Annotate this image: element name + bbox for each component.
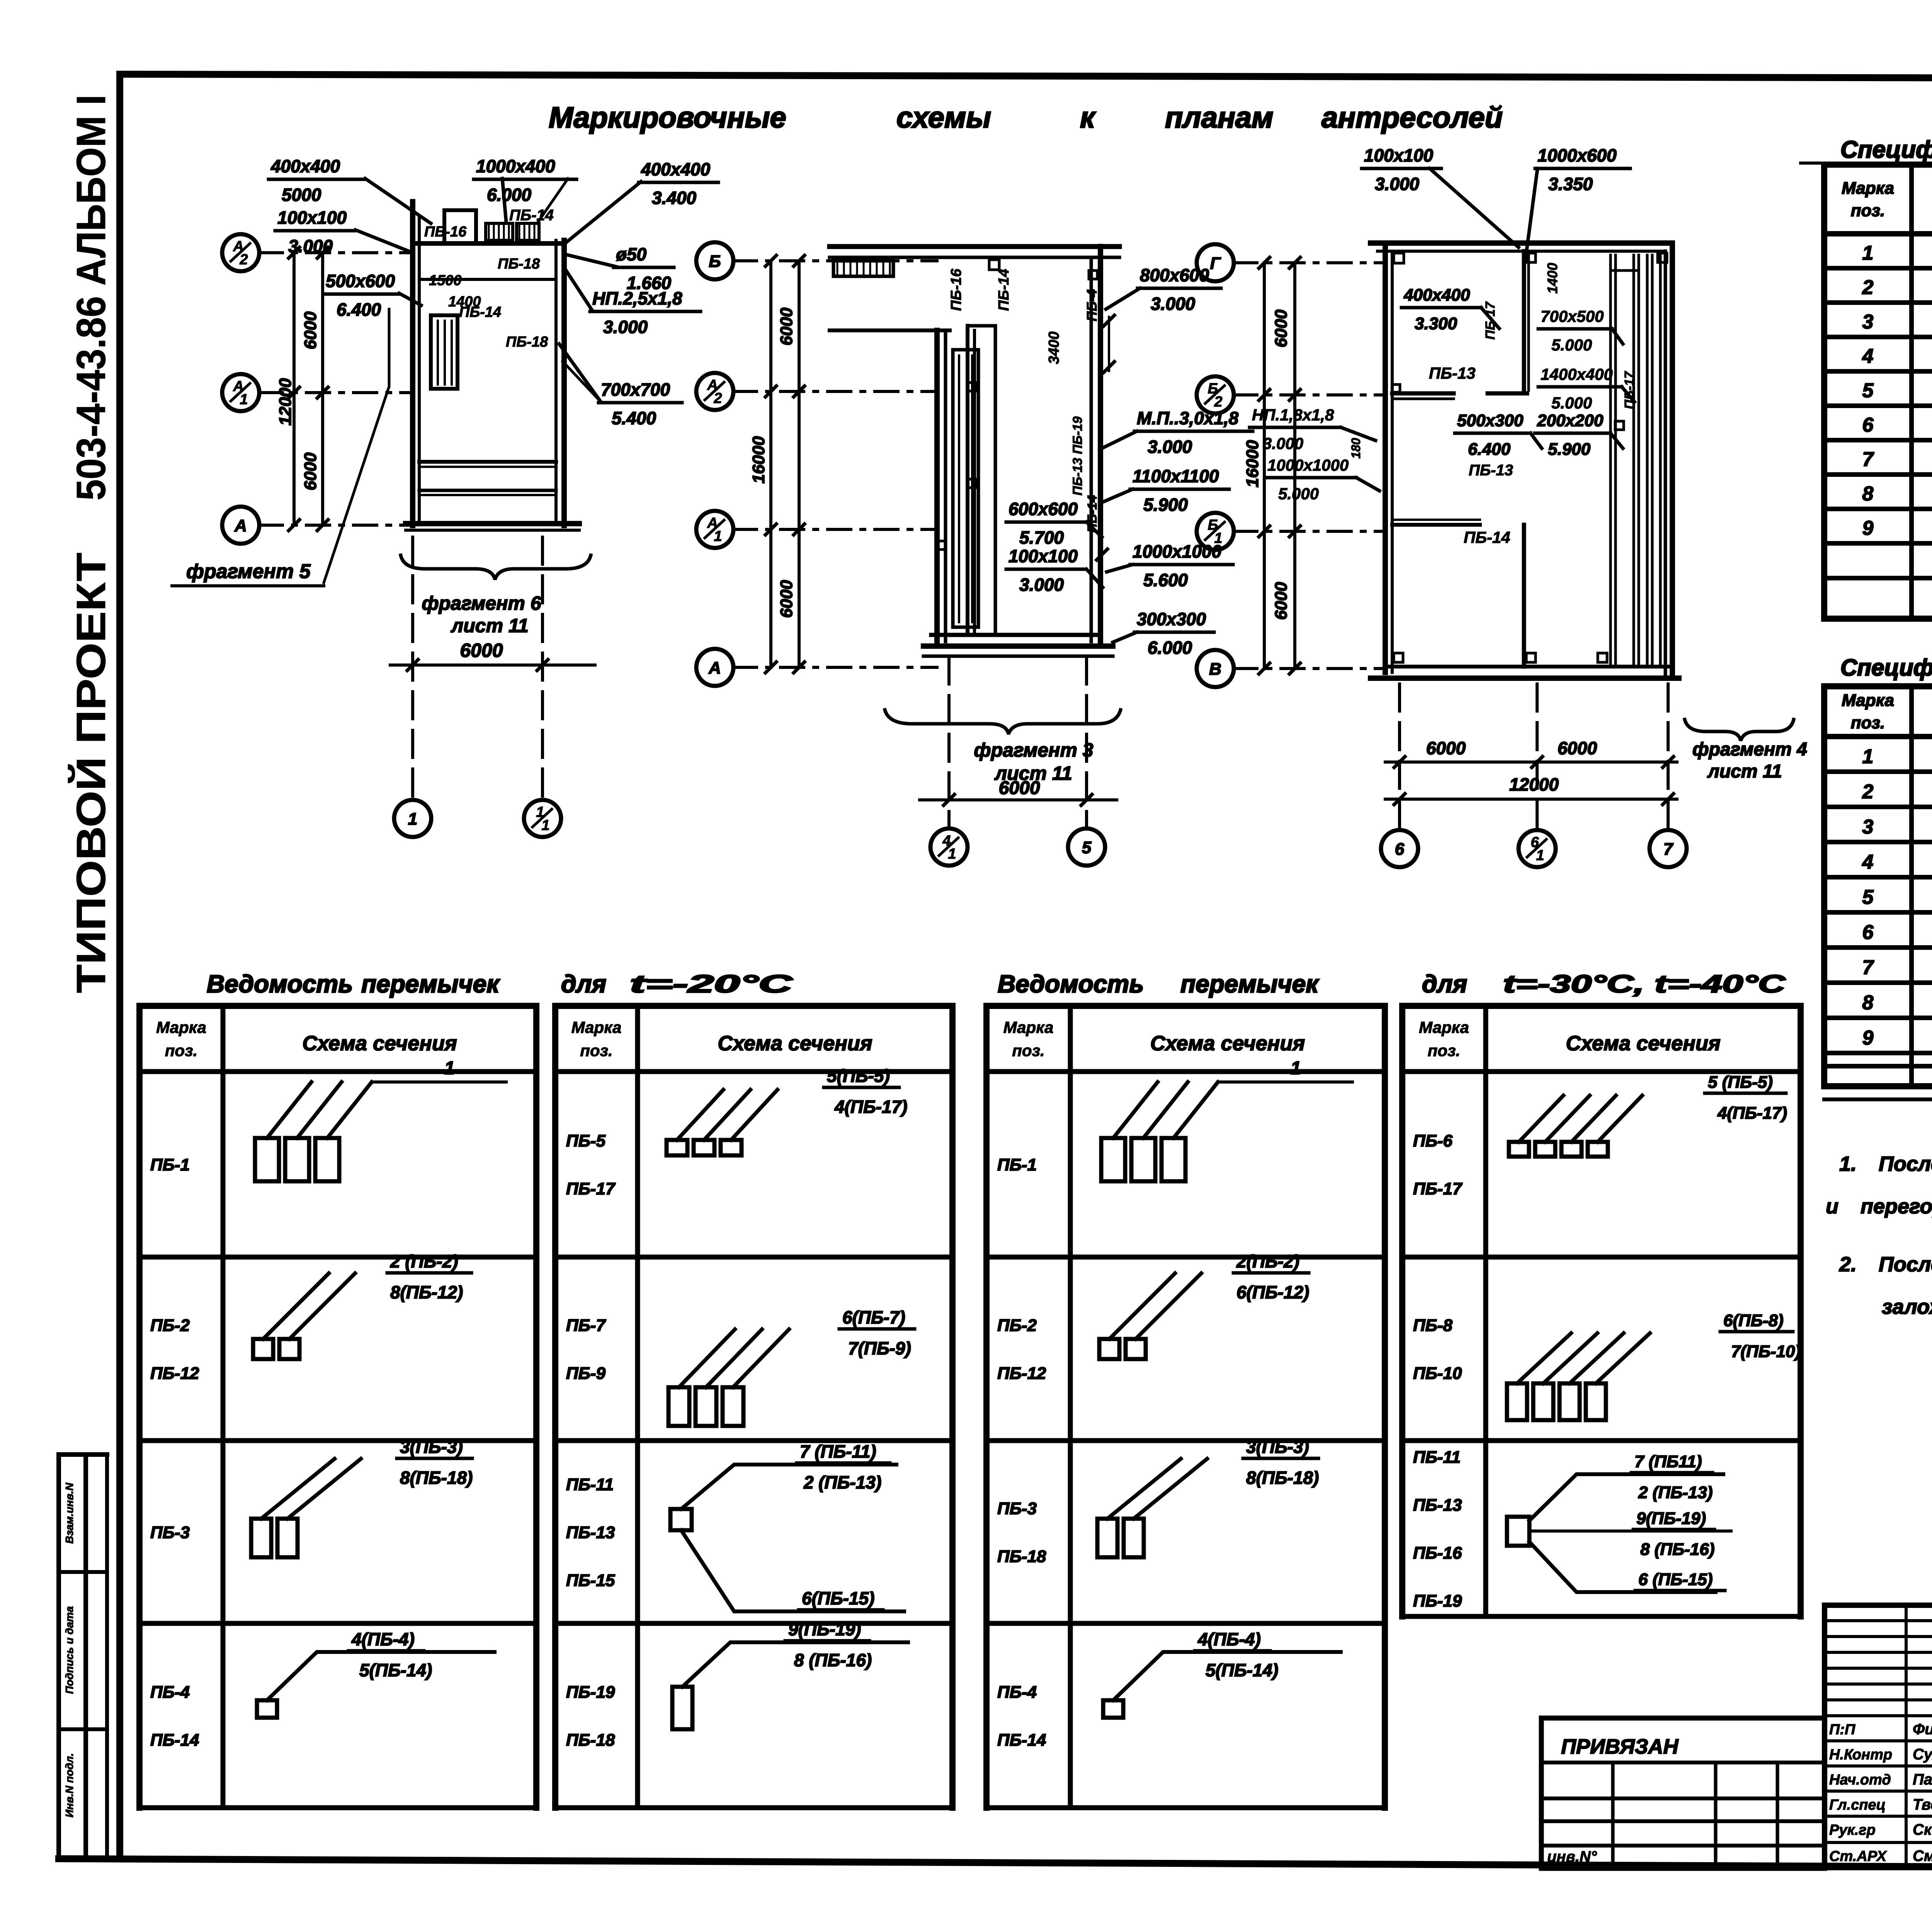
svg-text:Маркировочные: Маркировочные xyxy=(549,101,786,134)
svg-text:Схема сечения: Схема сечения xyxy=(1150,1032,1305,1055)
svg-text:5: 5 xyxy=(1862,379,1874,402)
svg-text:6.000: 6.000 xyxy=(487,185,532,205)
svg-text:ПБ-13: ПБ-13 xyxy=(1469,462,1513,479)
svg-text:1: 1 xyxy=(1862,745,1874,768)
svg-text:ПБ-18: ПБ-18 xyxy=(566,1731,615,1750)
svg-text:100х100: 100х100 xyxy=(1364,145,1433,165)
svg-text:ПБ-15: ПБ-15 xyxy=(566,1571,615,1590)
svg-text:8 (ПБ-16): 8 (ПБ-16) xyxy=(794,1650,872,1670)
svg-text:ПБ-13 ПБ-19: ПБ-13 ПБ-19 xyxy=(1070,417,1085,496)
svg-text:ПБ-14: ПБ-14 xyxy=(509,207,554,224)
svg-text:4: 4 xyxy=(1862,851,1874,873)
svg-text:Марка: Марка xyxy=(156,1018,206,1036)
svg-text:3.000: 3.000 xyxy=(1148,437,1192,457)
svg-text:5.600: 5.600 xyxy=(1143,570,1188,590)
svg-text:заложить кирпичом на раств: заложить кирпичом на растворе марки 10. xyxy=(1882,1295,1932,1318)
svg-text:ПРИВЯЗАН: ПРИВЯЗАН xyxy=(1561,1735,1679,1758)
svg-text:Марка: Марка xyxy=(1842,179,1894,198)
svg-text:ø50: ø50 xyxy=(616,244,647,264)
svg-text:6 (ПБ-15): 6 (ПБ-15) xyxy=(1638,1570,1713,1589)
svg-text:схемы: схемы xyxy=(896,101,991,134)
svg-text:ПБ-14: ПБ-14 xyxy=(1464,528,1510,546)
svg-text:инв.N°: инв.N° xyxy=(1547,1848,1597,1865)
svg-text:Подпись и дата: Подпись и дата xyxy=(63,1606,75,1694)
svg-text:ПБ-10: ПБ-10 xyxy=(1413,1364,1462,1383)
svg-text:Взам.инв.N: Взам.инв.N xyxy=(63,1482,75,1543)
svg-text:для: для xyxy=(1422,970,1467,998)
svg-text:6000: 6000 xyxy=(1558,738,1597,758)
svg-text:9(ПБ-19): 9(ПБ-19) xyxy=(788,1619,861,1639)
svg-text:ПБ-12: ПБ-12 xyxy=(997,1364,1046,1383)
svg-text:2. После установки оборуд: 2. После установки оборудования монтажны… xyxy=(1839,1253,1932,1276)
svg-text:400х400: 400х400 xyxy=(1403,286,1470,305)
svg-text:ПБ-18: ПБ-18 xyxy=(997,1547,1046,1566)
svg-text:ПБ-2: ПБ-2 xyxy=(150,1316,190,1335)
svg-text:поз.: поз. xyxy=(1851,201,1885,220)
svg-text:ПБ-17: ПБ-17 xyxy=(1413,1179,1463,1198)
svg-text:300х300: 300х300 xyxy=(1137,609,1206,629)
svg-text:5.000: 5.000 xyxy=(1551,336,1592,354)
svg-text:5.700: 5.700 xyxy=(1019,527,1064,548)
svg-text:1000х600: 1000х600 xyxy=(1537,145,1617,165)
svg-text:1: 1 xyxy=(541,817,549,834)
svg-text:1: 1 xyxy=(240,391,248,408)
svg-text:ПБ-9: ПБ-9 xyxy=(566,1364,605,1383)
svg-text:4(ПБ-17): 4(ПБ-17) xyxy=(1717,1104,1787,1123)
svg-text:1: 1 xyxy=(948,846,956,862)
svg-text:А: А xyxy=(708,658,721,677)
svg-text:Инв.N подл.: Инв.N подл. xyxy=(63,1753,75,1817)
svg-text:7 (ПБ-11): 7 (ПБ-11) xyxy=(800,1441,876,1461)
svg-text:1400х400: 1400х400 xyxy=(1541,365,1613,383)
svg-text:100х100: 100х100 xyxy=(1009,546,1078,566)
svg-text:6: 6 xyxy=(1862,414,1874,436)
svg-text:12000: 12000 xyxy=(1509,774,1559,794)
svg-text:3.000: 3.000 xyxy=(288,236,333,256)
svg-text:антресолей: антресолей xyxy=(1321,101,1503,134)
svg-text:2(ПБ-2): 2(ПБ-2) xyxy=(1236,1251,1299,1271)
svg-text:5.900: 5.900 xyxy=(1143,495,1188,515)
svg-text:5(ПБ-5): 5(ПБ-5) xyxy=(827,1066,890,1086)
svg-text:ПБ-14: ПБ-14 xyxy=(996,269,1012,311)
svg-text:1: 1 xyxy=(1291,1058,1301,1079)
svg-text:ПБ-16: ПБ-16 xyxy=(1413,1544,1462,1563)
svg-text:6000: 6000 xyxy=(1272,582,1291,620)
svg-text:2: 2 xyxy=(239,252,248,268)
svg-text:ПБ-1: ПБ-1 xyxy=(150,1155,190,1174)
svg-text:НП.2,5х1,8: НП.2,5х1,8 xyxy=(592,288,682,308)
svg-text:600х600: 600х600 xyxy=(1009,499,1078,519)
svg-text:ПБ-14: ПБ-14 xyxy=(997,1731,1046,1750)
svg-text:Сухановская: Сухановская xyxy=(1913,1746,1932,1763)
svg-text:ПБ-16: ПБ-16 xyxy=(424,224,467,240)
svg-text:ПБ-8: ПБ-8 xyxy=(1413,1316,1452,1335)
svg-text:3.000: 3.000 xyxy=(1019,575,1064,595)
svg-text:5: 5 xyxy=(1862,886,1874,908)
svg-text:ПБ-7: ПБ-7 xyxy=(566,1316,606,1335)
svg-text:Б: Б xyxy=(709,252,721,271)
svg-text:7(ПБ-9): 7(ПБ-9) xyxy=(848,1338,911,1358)
svg-text:16000: 16000 xyxy=(749,436,768,483)
svg-text:Смирнов: Смирнов xyxy=(1913,1848,1932,1865)
svg-text:поз.: поз. xyxy=(1012,1041,1044,1060)
svg-text:ПБ-5: ПБ-5 xyxy=(566,1131,605,1150)
svg-text:4(ПБ-4): 4(ПБ-4) xyxy=(1197,1629,1261,1649)
svg-text:3(ПБ-3): 3(ПБ-3) xyxy=(400,1437,463,1457)
svg-text:Схема сечения: Схема сечения xyxy=(718,1032,872,1055)
svg-text:400х400: 400х400 xyxy=(270,156,340,176)
svg-text:1400: 1400 xyxy=(448,294,481,310)
svg-text:к: к xyxy=(1080,101,1096,134)
svg-text:и перегородках заделать бет: и перегородках заделать бетоном класса В… xyxy=(1826,1195,1932,1218)
svg-text:5.900: 5.900 xyxy=(1548,440,1591,459)
svg-text:ПБ-14: ПБ-14 xyxy=(150,1731,199,1750)
svg-text:планам: планам xyxy=(1165,101,1273,134)
svg-text:ПБ-13: ПБ-13 xyxy=(1413,1496,1462,1515)
svg-text:3.000: 3.000 xyxy=(1151,294,1196,314)
svg-text:400х400: 400х400 xyxy=(641,159,710,179)
svg-text:5(ПБ-14): 5(ПБ-14) xyxy=(1206,1660,1278,1680)
svg-text:4: 4 xyxy=(1862,345,1874,367)
svg-text:200х200: 200х200 xyxy=(1537,411,1604,430)
svg-text:8: 8 xyxy=(1862,992,1874,1014)
svg-text:12000: 12000 xyxy=(276,378,295,425)
svg-text:1400: 1400 xyxy=(1544,263,1560,294)
svg-text:ПБ-4: ПБ-4 xyxy=(150,1683,190,1702)
svg-text:5000: 5000 xyxy=(282,185,321,205)
svg-text:3: 3 xyxy=(1862,816,1874,838)
svg-text:ПБ-12: ПБ-12 xyxy=(150,1364,199,1383)
svg-text:2 (ПБ-13): 2 (ПБ-13) xyxy=(1638,1483,1713,1502)
svg-text:8 (ПБ-16): 8 (ПБ-16) xyxy=(1640,1540,1714,1559)
svg-text:1: 1 xyxy=(1214,530,1222,546)
svg-text:Ст.АРХ: Ст.АРХ xyxy=(1829,1848,1888,1865)
svg-text:Спецификация: Спецификация xyxy=(1840,655,1932,680)
svg-text:3.300: 3.300 xyxy=(1415,314,1458,333)
svg-text:1: 1 xyxy=(1862,242,1874,264)
svg-text:503-4-43.86 АЛЬБОМ I: 503-4-43.86 АЛЬБОМ I xyxy=(68,95,114,500)
svg-text:перемычек: перемычек xyxy=(361,970,500,998)
svg-text:лист 11: лист 11 xyxy=(1707,761,1782,782)
svg-text:4(ПБ-17): 4(ПБ-17) xyxy=(834,1097,907,1117)
svg-text:7(ПБ-10): 7(ПБ-10) xyxy=(1731,1342,1801,1361)
svg-text:ПБ-3: ПБ-3 xyxy=(997,1499,1037,1518)
svg-text:Н.Контр: Н.Контр xyxy=(1829,1747,1892,1763)
svg-text:Спецификация: Спецификация xyxy=(1840,136,1932,163)
svg-text:8(ПБ-12): 8(ПБ-12) xyxy=(390,1282,463,1302)
svg-text:1: 1 xyxy=(408,810,417,829)
svg-text:2 (ПБ-2): 2 (ПБ-2) xyxy=(390,1251,458,1271)
svg-text:1: 1 xyxy=(714,528,722,544)
svg-text:6.400: 6.400 xyxy=(337,299,381,320)
svg-text:7: 7 xyxy=(1862,956,1874,979)
svg-text:ПБ-1: ПБ-1 xyxy=(997,1155,1037,1174)
svg-text:500х300: 500х300 xyxy=(1457,411,1524,430)
svg-text:1100х1100: 1100х1100 xyxy=(1133,466,1219,486)
svg-text:Нач.отд: Нач.отд xyxy=(1829,1772,1891,1788)
svg-text:2: 2 xyxy=(713,390,722,407)
svg-text:поз.: поз. xyxy=(1851,713,1885,732)
svg-text:1500: 1500 xyxy=(429,272,462,289)
svg-text:6(ПБ-7): 6(ПБ-7) xyxy=(842,1307,905,1327)
svg-text:5(ПБ-14): 5(ПБ-14) xyxy=(359,1660,432,1680)
svg-text:3.400: 3.400 xyxy=(652,188,697,208)
svg-text:поз.: поз. xyxy=(165,1041,197,1060)
svg-text:700х500: 700х500 xyxy=(1541,307,1604,325)
svg-text:500х600: 500х600 xyxy=(326,271,395,291)
svg-text:1: 1 xyxy=(444,1058,455,1079)
svg-text:Пашинский: Пашинский xyxy=(1913,1771,1932,1788)
svg-text:фрагмент 4: фрагмент 4 xyxy=(1692,739,1807,760)
svg-text:700х700: 700х700 xyxy=(601,379,670,400)
svg-text:лист 11: лист 11 xyxy=(451,615,529,636)
svg-text:ПБ-2: ПБ-2 xyxy=(997,1316,1037,1335)
svg-text:6000: 6000 xyxy=(1426,738,1466,758)
svg-text:9(ПБ-19): 9(ПБ-19) xyxy=(1636,1509,1706,1528)
svg-text:1: 1 xyxy=(1536,847,1544,864)
svg-text:8: 8 xyxy=(1862,483,1874,505)
svg-text:ПБ-13: ПБ-13 xyxy=(1429,364,1476,382)
svg-text:3.000: 3.000 xyxy=(603,317,648,337)
svg-text:2: 2 xyxy=(1862,276,1874,299)
svg-text:5: 5 xyxy=(1082,838,1092,857)
svg-text:6: 6 xyxy=(1862,921,1874,944)
svg-text:6.000: 6.000 xyxy=(1148,638,1192,658)
svg-text:ПБ-17: ПБ-17 xyxy=(1483,301,1498,340)
svg-text:6000: 6000 xyxy=(301,453,320,490)
svg-text:Марка: Марка xyxy=(1003,1018,1054,1036)
svg-text:ПБ-17: ПБ-17 xyxy=(1622,371,1637,409)
svg-text:ПБ-16: ПБ-16 xyxy=(948,269,964,311)
svg-text:Марка: Марка xyxy=(571,1018,622,1036)
svg-text:3.000: 3.000 xyxy=(1375,174,1420,194)
svg-text:3400: 3400 xyxy=(1046,332,1062,364)
svg-text:7: 7 xyxy=(1862,448,1874,471)
svg-text:3.000: 3.000 xyxy=(1263,434,1303,453)
svg-text:2: 2 xyxy=(1214,394,1222,410)
svg-text:4(ПБ-4): 4(ПБ-4) xyxy=(351,1629,415,1649)
svg-text:6000: 6000 xyxy=(777,308,796,345)
svg-text:ПБ-11: ПБ-11 xyxy=(566,1475,614,1494)
svg-text:Г: Г xyxy=(1210,254,1221,273)
svg-text:поз.: поз. xyxy=(1428,1041,1460,1060)
svg-text:16000: 16000 xyxy=(1243,440,1262,487)
svg-text:поз.: поз. xyxy=(580,1041,612,1060)
svg-text:фрагмент 3: фрагмент 3 xyxy=(974,739,1093,761)
svg-text:6000: 6000 xyxy=(999,778,1040,798)
svg-text:ПБ-18: ПБ-18 xyxy=(506,334,548,350)
svg-text:t=-20°С: t=-20°С xyxy=(630,970,793,998)
svg-text:Марка: Марка xyxy=(1842,691,1894,710)
svg-text:8(ПБ-18): 8(ПБ-18) xyxy=(400,1468,473,1488)
svg-text:1000х400: 1000х400 xyxy=(476,156,555,176)
svg-text:ПБ-4: ПБ-4 xyxy=(997,1683,1037,1702)
svg-text:6(ПБ-8): 6(ПБ-8) xyxy=(1723,1311,1784,1330)
svg-text:2 (ПБ-13): 2 (ПБ-13) xyxy=(803,1472,881,1492)
svg-text:1. После прокладки комму: 1. После прокладки коммуникаций щели в с… xyxy=(1839,1152,1932,1176)
svg-text:Гл.спец: Гл.спец xyxy=(1829,1797,1886,1813)
svg-text:фрагмент 5: фрагмент 5 xyxy=(186,560,311,583)
svg-text:100х100: 100х100 xyxy=(277,208,347,228)
svg-text:Схема сечения: Схема сечения xyxy=(1566,1032,1720,1055)
svg-text:Схема сечения: Схема сечения xyxy=(302,1032,457,1055)
svg-text:1000х1000: 1000х1000 xyxy=(1133,541,1222,561)
svg-text:ПБ-19: ПБ-19 xyxy=(1413,1592,1462,1611)
svg-text:Рук.гр: Рук.гр xyxy=(1829,1822,1876,1838)
svg-text:6000: 6000 xyxy=(460,640,503,661)
svg-text:3.350: 3.350 xyxy=(1548,174,1593,194)
svg-text:А: А xyxy=(234,516,247,535)
svg-text:ПБ-19: ПБ-19 xyxy=(566,1683,615,1702)
svg-text:ПБ-18: ПБ-18 xyxy=(498,256,540,272)
svg-text:НП.1,8х1,8: НП.1,8х1,8 xyxy=(1252,406,1334,424)
svg-text:ПБ-13: ПБ-13 xyxy=(566,1523,615,1542)
svg-text:7 (ПБ11): 7 (ПБ11) xyxy=(1634,1452,1702,1471)
svg-text:1000х1000: 1000х1000 xyxy=(1267,456,1349,474)
svg-text:t=-30°С, t=-40°С: t=-30°С, t=-40°С xyxy=(1503,970,1786,998)
svg-text:Твонн: Твонн xyxy=(1913,1796,1932,1813)
svg-text:180: 180 xyxy=(1349,438,1363,459)
svg-text:Марка: Марка xyxy=(1419,1018,1469,1036)
svg-text:Скоблин: Скоблин xyxy=(1913,1821,1932,1838)
svg-text:фрагмент 6: фрагмент 6 xyxy=(422,592,541,614)
svg-text:ТИПОВОЙ ПРОЕКТ: ТИПОВОЙ ПРОЕКТ xyxy=(68,553,114,993)
svg-text:ПБ-6: ПБ-6 xyxy=(1413,1131,1452,1150)
svg-text:Ведомость: Ведомость xyxy=(207,970,353,998)
svg-text:6000: 6000 xyxy=(301,311,320,349)
svg-text:ПБ-17: ПБ-17 xyxy=(566,1179,616,1198)
svg-text:5.000: 5.000 xyxy=(1551,394,1592,412)
svg-text:6.400: 6.400 xyxy=(1468,440,1511,459)
svg-text:3: 3 xyxy=(1862,311,1874,333)
svg-text:6000: 6000 xyxy=(777,580,796,618)
svg-text:6(ПБ-15): 6(ПБ-15) xyxy=(802,1588,874,1608)
svg-text:Финкер: Финкер xyxy=(1913,1721,1932,1738)
svg-text:3(ПБ-3): 3(ПБ-3) xyxy=(1246,1437,1309,1457)
svg-text:5.400: 5.400 xyxy=(612,408,656,428)
svg-text:9: 9 xyxy=(1862,1027,1874,1049)
svg-text:8(ПБ-18): 8(ПБ-18) xyxy=(1246,1468,1319,1488)
svg-text:6000: 6000 xyxy=(1272,310,1291,347)
svg-text:Ведомость: Ведомость xyxy=(998,970,1144,998)
svg-text:перемычек: перемычек xyxy=(1180,970,1320,998)
svg-text:ПБ-11: ПБ-11 xyxy=(1413,1448,1461,1467)
svg-text:П:П: П:П xyxy=(1829,1722,1855,1738)
svg-text:ПБ-4: ПБ-4 xyxy=(1084,289,1100,321)
svg-text:6: 6 xyxy=(1395,840,1405,859)
svg-text:7: 7 xyxy=(1663,840,1674,859)
svg-text:9: 9 xyxy=(1862,517,1874,539)
svg-text:ПБ-3: ПБ-3 xyxy=(150,1523,190,1542)
svg-text:5 (ПБ-5): 5 (ПБ-5) xyxy=(1708,1073,1773,1092)
svg-text:2: 2 xyxy=(1862,781,1874,803)
svg-text:6(ПБ-12): 6(ПБ-12) xyxy=(1236,1282,1309,1302)
svg-text:для: для xyxy=(561,970,606,998)
svg-text:В: В xyxy=(1209,660,1221,679)
svg-text:5.000: 5.000 xyxy=(1278,485,1319,503)
